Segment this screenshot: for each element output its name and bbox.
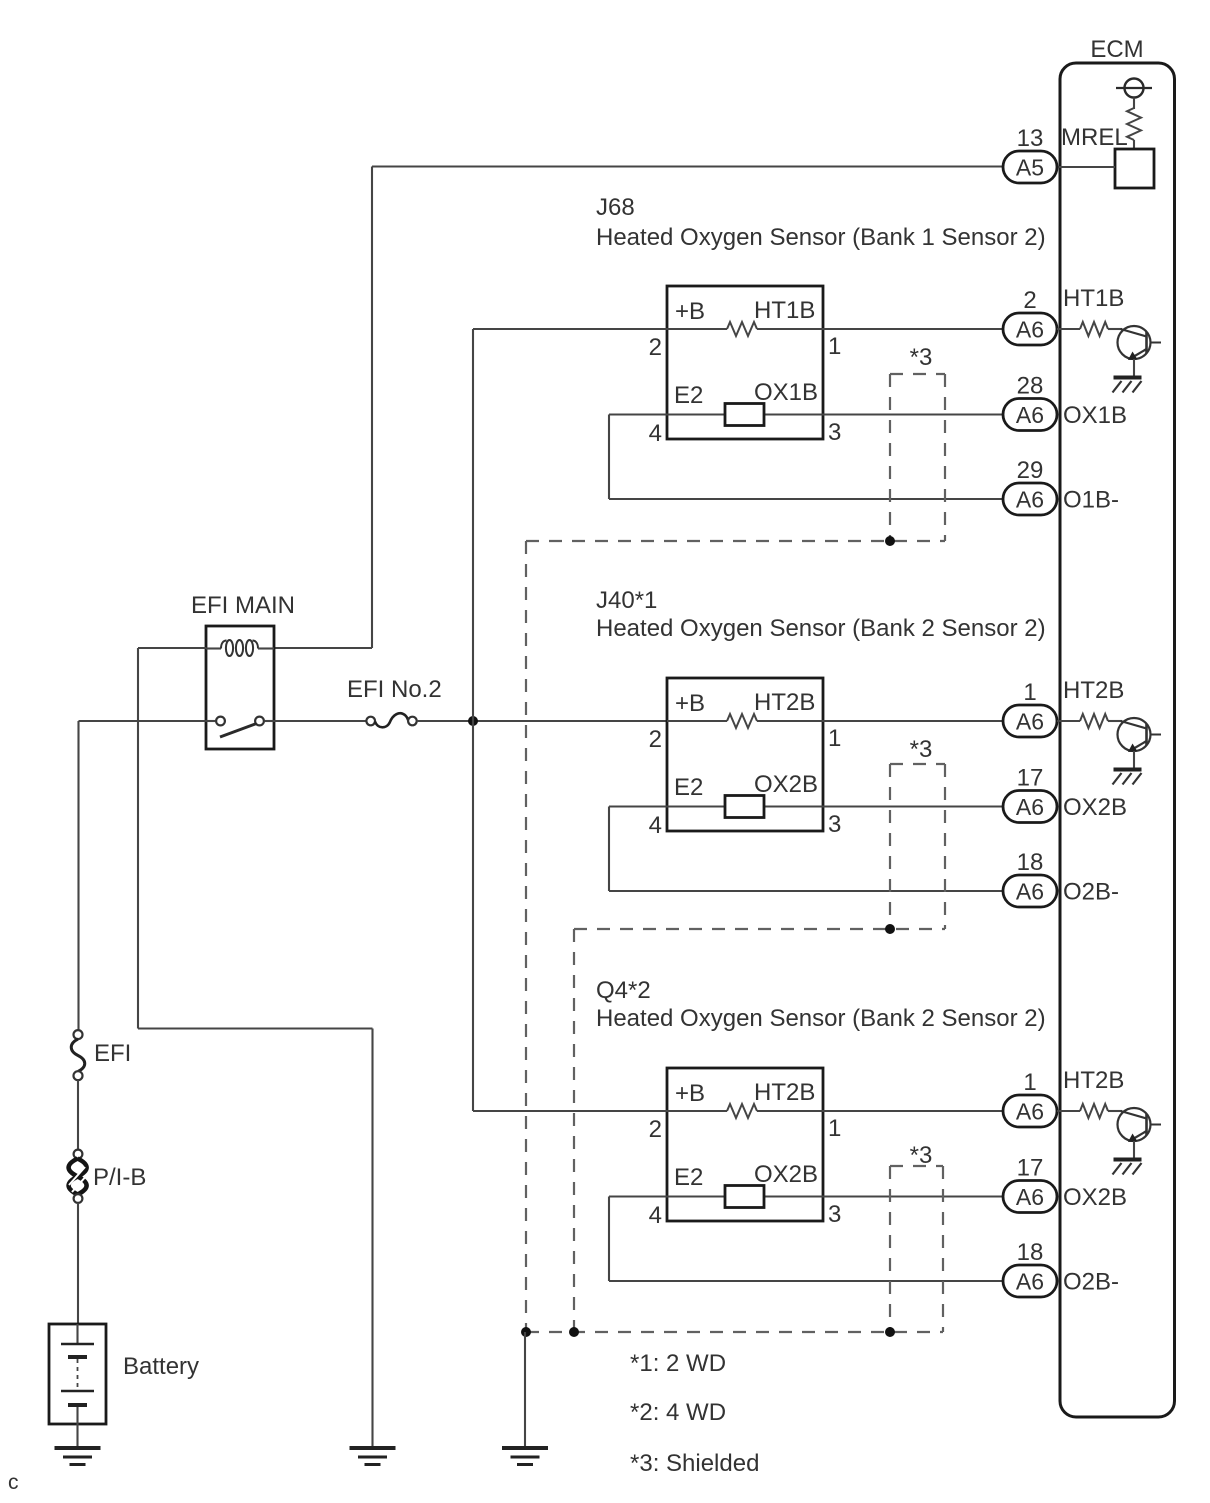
heated oxygen sensor J68 box xyxy=(667,286,823,439)
junction shield bus 2 xyxy=(569,1327,579,1337)
shield dashed bottom bus xyxy=(526,1331,943,1333)
wire emitter to ground xyxy=(1133,359,1135,378)
battery box xyxy=(49,1324,106,1424)
shield dashed box sensor2 xyxy=(890,763,945,765)
ground relay coil xyxy=(350,1446,396,1450)
ECM box xyxy=(1060,63,1175,1417)
svg-text:Q4*2: Q4*2 xyxy=(596,977,651,1004)
svg-text:A6: A6 xyxy=(1016,487,1044,513)
ground battery xyxy=(55,1446,101,1450)
connector A6 pin 17 q4 xyxy=(1003,1181,1057,1213)
svg-text:E2: E2 xyxy=(674,1164,703,1191)
battery internals xyxy=(76,1324,78,1344)
resistor ECM heater driver xyxy=(1080,322,1108,336)
svg-text:HT2B: HT2B xyxy=(754,689,815,716)
svg-text:A6: A6 xyxy=(1016,879,1044,905)
shield dashed box sensor1 xyxy=(890,373,945,375)
svg-text:A6: A6 xyxy=(1016,317,1044,343)
wire E2 sensor2 to O2B- xyxy=(609,805,667,807)
connector A5 pin 13 xyxy=(1003,151,1057,183)
wire fuse to sensor2 xyxy=(417,720,667,722)
wire OX2B to ECM xyxy=(823,805,1003,807)
svg-text:OX2B: OX2B xyxy=(754,771,818,798)
fuse EFI xyxy=(74,1030,83,1039)
svg-text:29: 29 xyxy=(1017,457,1044,484)
svg-text:OX1B: OX1B xyxy=(1063,402,1127,429)
svg-text:ECM: ECM xyxy=(1090,36,1143,63)
svg-text:17: 17 xyxy=(1017,765,1044,792)
wire element to pin3 xyxy=(764,413,823,415)
wire +B through sensor xyxy=(667,1110,727,1112)
svg-text:EFI No.2: EFI No.2 xyxy=(347,676,442,703)
wire xyxy=(1108,328,1122,330)
wire E2 to element xyxy=(667,1195,725,1197)
svg-text:Battery: Battery xyxy=(123,1353,199,1380)
connector A6 pin 1 q4 xyxy=(1003,1095,1057,1127)
svg-text:*1: 2 WD: *1: 2 WD xyxy=(630,1350,726,1377)
junction shield bus 3 xyxy=(885,1327,895,1337)
svg-text:A5: A5 xyxy=(1016,155,1044,181)
svg-text:A6: A6 xyxy=(1016,794,1044,820)
svg-text:1: 1 xyxy=(1023,679,1036,706)
svg-text:OX2B: OX2B xyxy=(1063,1184,1127,1211)
wire MREL feed from EFI MAIN relay coil xyxy=(372,165,1003,167)
svg-text:O2B-: O2B- xyxy=(1063,879,1119,906)
svg-text:2: 2 xyxy=(1023,287,1036,314)
wire HT1B to ECM xyxy=(823,328,1003,330)
svg-text:A6: A6 xyxy=(1016,1184,1044,1210)
connector A6 pin 2 xyxy=(1003,313,1057,345)
svg-text:+B: +B xyxy=(675,690,705,717)
wire E2 sensor3 to O2B- xyxy=(609,1195,667,1197)
svg-text:1: 1 xyxy=(828,333,841,360)
svg-text:A6: A6 xyxy=(1016,709,1044,735)
connector A6 pin 17 xyxy=(1003,791,1057,823)
svg-text:4: 4 xyxy=(649,812,662,839)
connector A6 pin 18 xyxy=(1003,875,1057,907)
wire coil left to ground run xyxy=(138,647,206,649)
wire xyxy=(77,1080,79,1149)
svg-text:OX2B: OX2B xyxy=(1063,794,1127,821)
svg-text:Heated Oxygen Sensor (Bank 1 S: Heated Oxygen Sensor (Bank 1 Sensor 2) xyxy=(596,224,1046,251)
svg-text:Heated Oxygen Sensor (Bank 2 S: Heated Oxygen Sensor (Bank 2 Sensor 2) xyxy=(596,615,1046,642)
svg-text:OX2B: OX2B xyxy=(754,1161,818,1188)
MREL driver box xyxy=(1115,149,1154,188)
svg-text:EFI: EFI xyxy=(94,1040,131,1067)
wire E2 sensor1 to O1B- xyxy=(609,413,667,415)
fusible link P/I-B xyxy=(74,1150,83,1159)
heated oxygen sensor Q4 box xyxy=(667,1068,823,1221)
svg-text:18: 18 xyxy=(1017,1239,1044,1266)
wire xyxy=(1108,1110,1122,1112)
svg-text:1: 1 xyxy=(828,725,841,752)
fuse EFI No.2 xyxy=(366,717,375,726)
wire xyxy=(1057,720,1080,722)
svg-text:*3: Shielded: *3: Shielded xyxy=(630,1450,759,1477)
relay EFI MAIN box xyxy=(206,626,274,749)
ground ECM internal xyxy=(1114,1158,1142,1162)
wire xyxy=(77,1203,79,1324)
wire +B bus to sensor3 xyxy=(473,1110,667,1112)
svg-text:2: 2 xyxy=(649,334,662,361)
svg-text:HT2B: HT2B xyxy=(1063,1067,1124,1094)
wire xyxy=(1133,98,1135,110)
svg-text:A6: A6 xyxy=(1016,402,1044,428)
connector A6 pin 29 xyxy=(1003,483,1057,515)
wire shield to ground xyxy=(524,1332,526,1448)
svg-text:O1B-: O1B- xyxy=(1063,487,1119,514)
connector A6 pin 18 q4 xyxy=(1003,1265,1057,1297)
svg-text:c: c xyxy=(8,1471,19,1494)
svg-text:J68: J68 xyxy=(596,194,635,221)
svg-text:P/I-B: P/I-B xyxy=(93,1164,146,1191)
wire xyxy=(1108,720,1122,722)
svg-text:13: 13 xyxy=(1017,125,1044,152)
transistor heater driver xyxy=(1118,326,1151,359)
svg-text:MREL: MREL xyxy=(1061,124,1128,151)
shield dashed bottom run sensor1 xyxy=(526,540,945,542)
resistor ECM heater driver xyxy=(1080,714,1108,728)
sensor element box xyxy=(725,404,764,426)
wire element to pin3 xyxy=(764,805,823,807)
junction +B bus xyxy=(468,716,478,726)
svg-text:E2: E2 xyxy=(674,774,703,801)
wire emitter to ground xyxy=(1133,751,1135,770)
shield dashed bottom run sensor2 xyxy=(574,928,945,930)
svg-text:3: 3 xyxy=(828,419,841,446)
junction shield2 xyxy=(885,924,895,934)
svg-text:18: 18 xyxy=(1017,849,1044,876)
svg-text:17: 17 xyxy=(1017,1155,1044,1182)
svg-text:*3: *3 xyxy=(910,344,933,371)
wire relay to fuse xyxy=(274,720,366,722)
wire HT2B q4 to ECM xyxy=(823,1110,1003,1112)
wire A5 to driver xyxy=(1057,166,1115,168)
wire element to pin3 xyxy=(764,1195,823,1197)
sensor element box xyxy=(725,796,764,818)
resistor ECM heater driver xyxy=(1080,1104,1108,1118)
relay switch xyxy=(206,720,215,722)
svg-text:+B: +B xyxy=(675,1080,705,1107)
svg-text:HT1B: HT1B xyxy=(1063,285,1124,312)
ground ECM internal xyxy=(1114,768,1142,772)
heated oxygen sensor J40 box xyxy=(667,678,823,831)
shield dashed main verticals xyxy=(525,541,527,1332)
wire xyxy=(1057,1110,1080,1112)
wire E2 to element xyxy=(667,413,725,415)
svg-text:2: 2 xyxy=(649,1116,662,1143)
svg-text:A6: A6 xyxy=(1016,1269,1044,1295)
svg-text:+B: +B xyxy=(675,298,705,325)
junction shield1 xyxy=(885,536,895,546)
svg-text:HT2B: HT2B xyxy=(1063,677,1124,704)
wire OX2B q4 to ECM xyxy=(823,1195,1003,1197)
svg-text:*2: 4 WD: *2: 4 WD xyxy=(630,1399,726,1426)
svg-text:A6: A6 xyxy=(1016,1099,1044,1125)
svg-text:4: 4 xyxy=(649,1202,662,1229)
ground ECM internal xyxy=(1114,376,1142,380)
svg-text:EFI MAIN: EFI MAIN xyxy=(191,592,295,619)
svg-text:HT2B: HT2B xyxy=(754,1079,815,1106)
wire HT2B to ECM xyxy=(823,720,1003,722)
heater resistor in sensor xyxy=(727,714,757,728)
svg-text:1: 1 xyxy=(828,1115,841,1142)
heater resistor in sensor xyxy=(727,1104,757,1118)
shield dashed box sensor3 xyxy=(890,1165,943,1167)
wire +B bus to sensor1 xyxy=(473,328,667,330)
svg-text:2: 2 xyxy=(649,726,662,753)
wire emitter to ground xyxy=(1133,1141,1135,1160)
svg-text:4: 4 xyxy=(649,420,662,447)
svg-text:1: 1 xyxy=(1023,1069,1036,1096)
power terminal circle xyxy=(1125,79,1144,98)
wire +B through sensor xyxy=(667,720,727,722)
svg-text:OX1B: OX1B xyxy=(754,379,818,406)
wire xyxy=(1057,328,1080,330)
connector A6 pin 1 xyxy=(1003,705,1057,737)
junction shield bus 1 xyxy=(521,1327,531,1337)
svg-text:*3: *3 xyxy=(910,736,933,763)
svg-text:O2B-: O2B- xyxy=(1063,1269,1119,1296)
resistor MREL pull-up xyxy=(1127,108,1141,140)
svg-text:3: 3 xyxy=(828,1201,841,1228)
ground shield xyxy=(502,1446,548,1450)
wire +B bus vertical xyxy=(472,329,474,1111)
svg-text:J40*1: J40*1 xyxy=(596,587,657,614)
wire OX1B to ECM xyxy=(823,413,1003,415)
svg-text:E2: E2 xyxy=(674,382,703,409)
wire +B through sensor xyxy=(667,328,727,330)
wire xyxy=(1133,140,1135,149)
relay coil xyxy=(206,647,221,649)
svg-text:28: 28 xyxy=(1017,373,1044,400)
wire battery to relay switch xyxy=(79,720,207,722)
connector A6 pin 28 xyxy=(1003,399,1057,431)
sensor element box xyxy=(725,1186,764,1208)
svg-text:3: 3 xyxy=(828,811,841,838)
heater resistor in sensor xyxy=(727,322,757,336)
svg-text:HT1B: HT1B xyxy=(754,297,815,324)
transistor heater driver xyxy=(1118,1108,1151,1141)
wire E2 to element xyxy=(667,805,725,807)
svg-text:Heated Oxygen Sensor (Bank 2 S: Heated Oxygen Sensor (Bank 2 Sensor 2) xyxy=(596,1005,1046,1032)
transistor heater driver xyxy=(1118,718,1151,751)
